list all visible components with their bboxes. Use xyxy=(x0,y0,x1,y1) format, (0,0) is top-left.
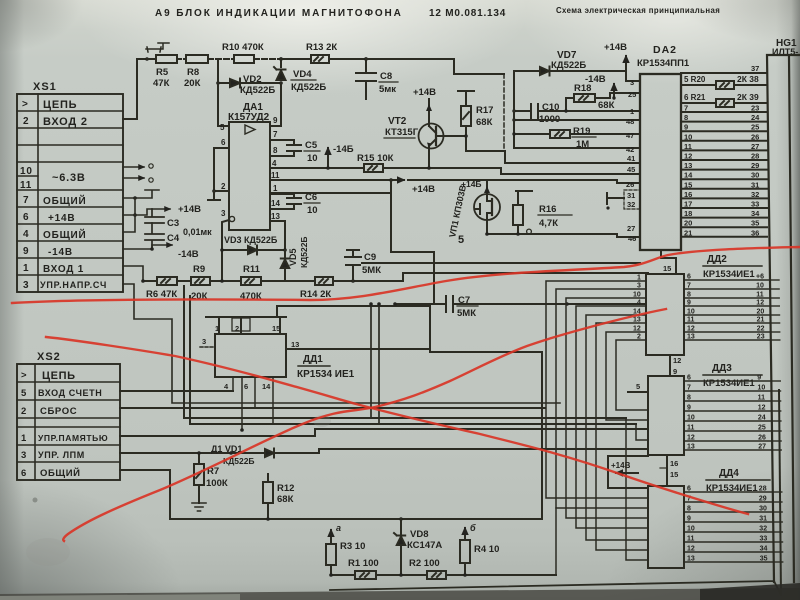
capacitor C9 xyxy=(345,250,384,281)
svg-text:R8: R8 xyxy=(187,67,199,78)
svg-text:18: 18 xyxy=(684,209,692,218)
node C8 top xyxy=(364,57,368,61)
svg-text:45: 45 xyxy=(627,165,635,174)
svg-text:6: 6 xyxy=(687,375,691,382)
red pen line C (descending to DD4) xyxy=(46,337,748,514)
svg-text:20: 20 xyxy=(684,219,692,228)
+14V arrow at DA2 xyxy=(604,42,627,71)
svg-text:+14В: +14В xyxy=(412,184,435,195)
node A top rail xyxy=(279,57,283,61)
svg-text:ОБЩИЙ: ОБЩИЙ xyxy=(43,228,87,241)
resistor R7 xyxy=(194,451,228,503)
svg-text:1: 1 xyxy=(637,275,641,282)
wire weave DD2 left pins to DD3/DD4 xyxy=(546,275,648,576)
svg-text:34: 34 xyxy=(760,546,768,553)
svg-text:22: 22 xyxy=(757,326,765,333)
svg-text:1: 1 xyxy=(23,263,29,274)
svg-text:КД522Б: КД522Б xyxy=(291,82,326,93)
pins 31 32 connector stub xyxy=(606,190,640,210)
svg-text:15: 15 xyxy=(684,180,692,189)
svg-text:9: 9 xyxy=(273,116,278,125)
svg-text:R10 470К: R10 470К xyxy=(222,42,264,53)
svg-text:6: 6 xyxy=(21,468,27,479)
svg-text:ВХОД СЧЕТН: ВХОД СЧЕТН xyxy=(38,388,102,398)
svg-text:-14В: -14В xyxy=(178,249,199,260)
svg-text:28: 28 xyxy=(759,486,767,493)
wire DA2 to DD2 pin15 elbow xyxy=(661,250,676,274)
svg-text:12: 12 xyxy=(687,546,695,553)
svg-text:ЦЕПЬ: ЦЕПЬ xyxy=(42,370,76,382)
svg-text:12: 12 xyxy=(687,435,695,442)
svg-text:10: 10 xyxy=(307,205,318,216)
svg-text:1: 1 xyxy=(630,107,634,116)
svg-text:+14В: +14В xyxy=(178,204,201,215)
title: А9 БЛОК ИНДИКАЦИИ МАГНИТОФОНА 12 М0.081.134 xyxy=(155,6,720,19)
transistor VT2 КТ315Г xyxy=(384,87,466,170)
svg-text:3: 3 xyxy=(630,78,634,87)
resistor R17 xyxy=(458,91,505,151)
resistor R11 xyxy=(240,264,315,302)
svg-text:41: 41 xyxy=(627,154,635,163)
svg-text:10: 10 xyxy=(20,166,33,177)
svg-text:6: 6 xyxy=(221,138,226,147)
wires DD right pins to HG bus xyxy=(684,274,774,563)
svg-text:14: 14 xyxy=(262,382,271,391)
svg-text:10: 10 xyxy=(684,132,692,141)
svg-text:13: 13 xyxy=(684,161,692,170)
svg-text:>: > xyxy=(22,99,29,110)
svg-text:4: 4 xyxy=(272,159,277,168)
svg-text:17: 17 xyxy=(684,200,692,209)
svg-text:9: 9 xyxy=(687,300,691,307)
svg-text:+14В: +14В xyxy=(48,213,75,224)
svg-text:2: 2 xyxy=(21,406,27,417)
svg-text:32: 32 xyxy=(759,526,767,533)
svg-text:ЦЕПЬ: ЦЕПЬ xyxy=(43,99,77,111)
svg-text:КД522Б: КД522Б xyxy=(551,60,586,71)
DD1 top pins 1 2 15 xyxy=(206,317,286,334)
svg-text:25: 25 xyxy=(628,90,636,99)
svg-text:10: 10 xyxy=(687,526,695,533)
wire top rail step right xyxy=(366,59,504,74)
svg-text:12: 12 xyxy=(756,300,764,307)
svg-text:6: 6 xyxy=(687,486,691,493)
svg-text:КТ315Г: КТ315Г xyxy=(385,127,419,138)
svg-text:21: 21 xyxy=(757,317,765,324)
connector XS1 xyxy=(17,81,123,292)
svg-text:15: 15 xyxy=(670,470,678,479)
svg-text:6 R21: 6 R21 xyxy=(684,93,706,102)
resistor R6 xyxy=(141,277,177,300)
wire pin 26 xyxy=(617,180,640,183)
svg-text:12 М0.081.134: 12 М0.081.134 xyxy=(429,8,506,19)
pin 6 xyxy=(214,138,229,191)
svg-text:5 R20: 5 R20 xyxy=(684,75,706,84)
wire input2 to top rail xyxy=(123,59,147,119)
resistor R14 xyxy=(300,273,648,300)
wire XS2 reset xyxy=(120,407,545,409)
svg-text:6: 6 xyxy=(687,274,691,281)
svg-text:15: 15 xyxy=(663,264,671,273)
resistor R9 xyxy=(177,264,241,302)
svg-text:4: 4 xyxy=(23,229,29,240)
svg-text:ОБЩИЙ: ОБЩИЙ xyxy=(43,194,87,207)
svg-text:29: 29 xyxy=(751,161,759,170)
wire pin 37 xyxy=(681,64,767,73)
svg-text:9: 9 xyxy=(23,246,29,257)
svg-text:14: 14 xyxy=(271,199,280,208)
svg-text:R5: R5 xyxy=(156,67,169,78)
transistor VT1 КП303В (FET) xyxy=(447,179,500,238)
wire XS2 common xyxy=(120,470,170,519)
svg-text:25: 25 xyxy=(751,123,759,132)
indicator HG1 ИЛТ5 xyxy=(767,38,800,582)
svg-text:46: 46 xyxy=(628,234,636,243)
svg-text:2: 2 xyxy=(221,182,226,191)
svg-text:2К 38: 2К 38 xyxy=(737,74,759,84)
wire input1 down to R6 xyxy=(123,266,143,281)
svg-text:3: 3 xyxy=(637,283,641,290)
wire pin3 xyxy=(626,71,640,81)
svg-text:5: 5 xyxy=(636,382,640,391)
svg-text:13: 13 xyxy=(687,334,695,341)
svg-text:0,01мк: 0,01мк xyxy=(183,227,212,237)
IC DD2 КР1534ИЕ1 xyxy=(646,254,762,355)
svg-text:27: 27 xyxy=(751,142,759,151)
resistor R8 xyxy=(177,55,208,89)
diode VD1 / wire XS2 LPM control xyxy=(120,444,648,466)
diode VD4 (zener) xyxy=(274,59,326,126)
svg-text:УПР.НАПР.СЧ: УПР.НАПР.СЧ xyxy=(40,280,107,290)
svg-text:+14В: +14В xyxy=(611,461,631,470)
svg-text:47К: 47К xyxy=(153,78,170,89)
pin 11 +14V wire xyxy=(270,171,617,195)
svg-text:б: б xyxy=(470,523,476,533)
svg-text:-14Б: -14Б xyxy=(333,144,354,155)
svg-text:13: 13 xyxy=(687,444,695,451)
svg-text:34: 34 xyxy=(751,209,760,218)
svg-text:XS1: XS1 xyxy=(33,81,57,93)
svg-text:12: 12 xyxy=(633,326,641,333)
svg-text:30: 30 xyxy=(759,506,767,513)
svg-text:25: 25 xyxy=(758,425,766,432)
svg-text:10: 10 xyxy=(756,283,764,290)
svg-text:УПР.ПАМЯТЬЮ: УПР.ПАМЯТЬЮ xyxy=(38,433,108,443)
red pen line A (horizontal wavy) xyxy=(12,247,800,303)
svg-text:ДД1: ДД1 xyxy=(303,354,323,365)
svg-text:30: 30 xyxy=(751,171,759,180)
svg-text:16: 16 xyxy=(670,459,678,468)
svg-text:10: 10 xyxy=(758,385,766,392)
svg-text:8: 8 xyxy=(273,146,278,155)
resistor R10 (dashed) xyxy=(208,42,281,63)
wire -14V arrow xyxy=(123,245,172,249)
wire long mid rail xyxy=(362,234,640,263)
resistor R16 4.7К xyxy=(513,191,572,234)
DD1 pin 13 wire xyxy=(286,340,430,349)
svg-text:С5: С5 xyxy=(305,140,318,151)
svg-text:9: 9 xyxy=(687,405,691,412)
DD1 bottom pins xyxy=(224,377,273,432)
wire common (7) with T symbol xyxy=(123,190,159,198)
IC DD1 КР1534ИЕ1 xyxy=(215,334,355,380)
svg-text:1: 1 xyxy=(273,184,278,193)
op-amp DA1 К157УД2 xyxy=(228,102,270,230)
svg-text:8: 8 xyxy=(684,113,688,122)
svg-text:R4 10: R4 10 xyxy=(474,544,499,555)
svg-text:10: 10 xyxy=(307,153,318,164)
svg-text:С10: С10 xyxy=(542,102,559,113)
capacitor C4 xyxy=(145,223,164,249)
wire +14V arrow xyxy=(123,209,170,215)
svg-text:VD8: VD8 xyxy=(410,529,428,540)
svg-text:1: 1 xyxy=(215,324,219,333)
resistor R21 xyxy=(681,92,767,107)
svg-text:8: 8 xyxy=(687,506,691,513)
svg-text:КД522Б: КД522Б xyxy=(223,456,255,466)
pin 9 to node A xyxy=(270,83,281,126)
svg-text:68К: 68К xyxy=(598,100,615,111)
bottom dark edge band xyxy=(0,583,800,600)
svg-text:КР1534ИЕ1: КР1534ИЕ1 xyxy=(703,269,755,280)
svg-text:R3 10: R3 10 xyxy=(340,541,365,552)
svg-text:R1 100: R1 100 xyxy=(348,558,379,569)
svg-text:20К: 20К xyxy=(184,78,201,89)
svg-text:ВХОД 2: ВХОД 2 xyxy=(43,116,88,128)
svg-text:13: 13 xyxy=(633,317,641,324)
svg-text:7: 7 xyxy=(273,130,278,139)
svg-text:2К 39: 2К 39 xyxy=(737,92,759,102)
DD3 pin 5 stub xyxy=(628,382,648,392)
svg-text:68К: 68К xyxy=(277,494,294,505)
svg-text:31: 31 xyxy=(759,516,767,523)
svg-text:21: 21 xyxy=(684,228,692,237)
wire left branch to DA1 pin5 xyxy=(218,59,229,126)
capacitor C10 xyxy=(514,102,640,125)
capacitor C5 between pins 7,8 xyxy=(270,130,320,164)
svg-text:33: 33 xyxy=(760,536,768,543)
-14Б arrow xyxy=(326,144,354,170)
svg-text:VD3 КД522Б: VD3 КД522Б xyxy=(224,235,278,245)
svg-text:VП1 КП303В: VП1 КП303В xyxy=(447,184,468,239)
ground under R7 xyxy=(192,503,206,511)
svg-text:1: 1 xyxy=(21,433,27,444)
svg-text:9: 9 xyxy=(757,375,761,382)
svg-text:С7: С7 xyxy=(458,295,470,306)
resistor R12 xyxy=(263,474,294,519)
svg-text:23: 23 xyxy=(757,334,765,341)
svg-text:14: 14 xyxy=(684,171,693,180)
resistor R4 with arrow б xyxy=(460,523,499,577)
svg-text:11: 11 xyxy=(684,142,692,151)
svg-text:R15 10К: R15 10К xyxy=(357,153,394,164)
svg-text:DA2: DA2 xyxy=(653,44,677,56)
svg-text:5: 5 xyxy=(21,388,27,399)
svg-text:+14В: +14В xyxy=(604,42,627,53)
svg-text:+6: +6 xyxy=(756,274,764,281)
svg-text:26: 26 xyxy=(751,132,759,141)
wire XS2 count input xyxy=(120,390,233,392)
svg-text:20: 20 xyxy=(757,309,765,316)
svg-text:36: 36 xyxy=(751,228,759,237)
resistor R3 with arrow a xyxy=(326,523,365,575)
svg-text:Д1 VD1: Д1 VD1 xyxy=(211,444,242,454)
svg-text:3: 3 xyxy=(202,337,206,346)
IC DD3 КР1534ИЕ1 xyxy=(648,363,762,455)
svg-text:13: 13 xyxy=(271,212,280,221)
svg-text:КС147А: КС147А xyxy=(407,540,442,551)
wires 41/45 into DA2 xyxy=(501,151,640,174)
svg-text:7: 7 xyxy=(687,385,691,392)
svg-text:11: 11 xyxy=(687,536,695,543)
resistor R13 xyxy=(281,42,366,63)
svg-text:11: 11 xyxy=(756,292,764,299)
resistor R5 xyxy=(147,55,177,89)
node bus xyxy=(123,198,135,232)
resistor R20 xyxy=(681,74,767,89)
svg-text:R16: R16 xyxy=(539,204,556,215)
capacitor C8 xyxy=(356,59,398,99)
svg-text:4: 4 xyxy=(224,382,229,391)
svg-text:R18: R18 xyxy=(574,83,591,94)
svg-text:6: 6 xyxy=(23,212,29,223)
svg-text:35: 35 xyxy=(751,219,759,228)
svg-text:12: 12 xyxy=(673,356,681,365)
wire DD2-DD3 link pins 12 9 xyxy=(670,355,681,376)
pushbutton SB over R5 xyxy=(146,43,169,52)
svg-text:R14 2К: R14 2К xyxy=(300,289,331,300)
svg-text:26: 26 xyxy=(758,435,766,442)
svg-text:УПР. ЛПМ: УПР. ЛПМ xyxy=(38,450,85,460)
second right bus line xyxy=(779,390,781,595)
svg-text:5: 5 xyxy=(220,123,225,132)
svg-text:+14В: +14В xyxy=(413,87,436,98)
svg-text:Схема электрическая принципи: Схема электрическая принципиальная xyxy=(556,6,720,15)
svg-text:33: 33 xyxy=(751,200,759,209)
svg-text:15: 15 xyxy=(272,324,280,333)
svg-text:ОБЩИЙ: ОБЩИЙ xyxy=(40,467,81,479)
svg-text:31: 31 xyxy=(751,180,759,189)
svg-text:48: 48 xyxy=(626,117,634,126)
zener VD8 xyxy=(394,519,442,577)
red pen line B (ascending from bottom left) xyxy=(63,309,666,541)
svg-text:4,7К: 4,7К xyxy=(539,218,558,229)
+14V arrow between DD3 DD4 xyxy=(608,456,648,488)
connector XS2 xyxy=(17,351,120,480)
svg-text:12: 12 xyxy=(684,152,692,161)
svg-text:10: 10 xyxy=(633,292,641,299)
diode VD5 (vertical) xyxy=(281,236,309,281)
svg-text:100К: 100К xyxy=(206,478,228,489)
IC DD4 КР1534ИЕ1 xyxy=(648,468,770,568)
svg-text:11: 11 xyxy=(687,317,695,324)
svg-text:23: 23 xyxy=(751,104,759,113)
pin 1 wire xyxy=(270,178,393,193)
svg-text:ВХОД 1: ВХОД 1 xyxy=(43,264,84,275)
XS1 right-side wires xyxy=(123,164,560,403)
wire XS2 memory control xyxy=(120,429,648,436)
wire DD3-DD4 link pins 16 15 xyxy=(660,455,678,486)
resistor R2 xyxy=(409,558,556,579)
svg-text:3: 3 xyxy=(23,280,29,291)
pin 13 wire to VD5 node xyxy=(270,212,285,250)
svg-text:11: 11 xyxy=(271,171,280,180)
svg-text:КР1534ПП1: КР1534ПП1 xyxy=(637,58,690,69)
svg-text:~6.3В: ~6.3В xyxy=(52,172,86,184)
svg-text:5мк: 5мк xyxy=(379,84,396,95)
svg-text:32: 32 xyxy=(627,200,635,209)
resistor R1 xyxy=(329,558,427,579)
svg-text:КР1534ИЕ1: КР1534ИЕ1 xyxy=(703,378,755,389)
svg-text:XS2: XS2 xyxy=(37,351,61,363)
svg-text:5МК: 5МК xyxy=(457,308,476,319)
svg-text:10: 10 xyxy=(687,415,695,422)
svg-text:2: 2 xyxy=(637,334,641,341)
svg-text:13: 13 xyxy=(291,340,299,349)
svg-text:ДД4: ДД4 xyxy=(719,468,739,479)
svg-text:12: 12 xyxy=(687,326,695,333)
svg-text:2: 2 xyxy=(23,116,29,127)
svg-text:А9 БЛОК ИНДИКАЦИИ МАГНИТОФО: А9 БЛОК ИНДИКАЦИИ МАГНИТОФОНА xyxy=(155,8,403,19)
svg-text:9: 9 xyxy=(684,123,688,132)
wire dashed vertical to R17 bottom row xyxy=(503,74,505,151)
IC DA2 КР1534ПП1 xyxy=(637,44,690,250)
svg-text:35: 35 xyxy=(760,556,768,563)
svg-text:VT2: VT2 xyxy=(388,116,407,127)
svg-text:6: 6 xyxy=(244,382,248,391)
svg-text:37: 37 xyxy=(751,64,759,73)
svg-text:31: 31 xyxy=(627,191,635,200)
svg-text:9: 9 xyxy=(673,367,677,376)
resistor R19 xyxy=(514,126,640,150)
DD1 left dashed pin 3 xyxy=(200,337,215,347)
svg-text:7: 7 xyxy=(684,104,688,113)
svg-text:5МК: 5МК xyxy=(362,265,381,276)
svg-text:R2 100: R2 100 xyxy=(409,558,440,569)
svg-text:-14В: -14В xyxy=(48,247,73,258)
wire FET source rail to pin 46 xyxy=(485,220,640,237)
svg-text:С8: С8 xyxy=(380,71,392,82)
bottom frame rail xyxy=(170,352,542,521)
svg-text:R17: R17 xyxy=(476,105,493,116)
svg-text:С4: С4 xyxy=(167,233,180,244)
diode VD3 xyxy=(220,235,287,255)
svg-text:10: 10 xyxy=(687,309,695,316)
svg-text:КД522Б: КД522Б xyxy=(299,236,309,268)
svg-text:7: 7 xyxy=(23,195,29,206)
svg-text:>: > xyxy=(21,370,27,381)
svg-text:12: 12 xyxy=(758,405,766,412)
paper smudges xyxy=(26,415,331,566)
svg-text:R9: R9 xyxy=(193,264,205,275)
svg-text:32: 32 xyxy=(751,190,759,199)
svg-text:VD5: VD5 xyxy=(288,248,298,266)
svg-text:42: 42 xyxy=(626,145,634,154)
svg-text:47: 47 xyxy=(626,131,634,140)
-14V arrow / resistor R18 xyxy=(566,74,640,111)
svg-text:КД522Б: КД522Б xyxy=(240,85,275,96)
svg-text:11: 11 xyxy=(687,425,695,432)
svg-text:КР1534 ИЕ1: КР1534 ИЕ1 xyxy=(297,369,355,380)
svg-text:R13 2К: R13 2К xyxy=(306,42,337,53)
svg-text:11: 11 xyxy=(758,395,766,402)
svg-text:С6: С6 xyxy=(305,192,317,203)
pin 4 output wire / resistor R15 xyxy=(270,153,501,172)
svg-text:R19: R19 xyxy=(573,126,590,137)
wire verticals right of DD1 xyxy=(369,302,381,424)
wire upr.napr.sch xyxy=(123,284,560,403)
svg-text:16: 16 xyxy=(684,190,692,199)
